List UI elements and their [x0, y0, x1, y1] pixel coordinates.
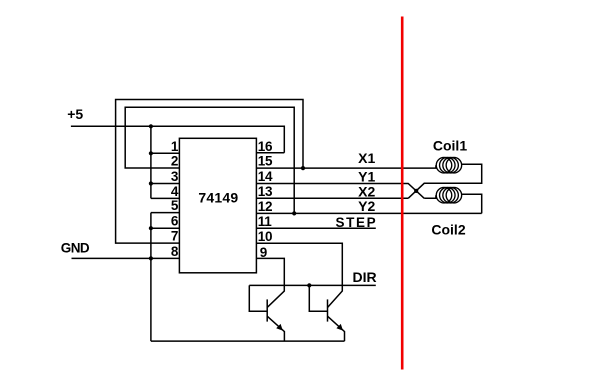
transistor Q1 emitter: [267, 316, 284, 341]
svg-text:Coil1: Coil1: [433, 138, 467, 154]
svg-text:Coil2: Coil2: [431, 221, 465, 237]
IC U1 74149 body: [179, 138, 256, 272]
wire outer loop rectangle (pin7 to X1): [116, 100, 303, 244]
transistor Q2 emitter: [328, 316, 345, 341]
wire pin 7/8 divider: [151, 242, 180, 244]
svg-text:STEP: STEP: [336, 215, 378, 230]
wire STEP pin 11: [256, 227, 375, 229]
svg-text:12: 12: [258, 199, 272, 214]
wire pin 3/4 divider: [151, 183, 180, 185]
wire pin 4/5 divider: [151, 197, 180, 199]
wire X2 pin 13: [256, 197, 408, 199]
node junction dot rail/GND: [149, 256, 153, 260]
svg-text:+5: +5: [67, 106, 83, 122]
svg-text:10: 10: [258, 229, 272, 244]
svg-text:X2: X2: [358, 183, 375, 199]
transistor Q2 emitter arrow: [336, 324, 343, 331]
svg-text:16: 16: [258, 139, 273, 154]
transistor Q1 emitter arrow: [276, 324, 283, 331]
wire GND to pin 8 bottom: [72, 257, 180, 259]
node junction dot rail/pin3-4: [149, 181, 153, 185]
svg-text:14: 14: [258, 169, 273, 184]
svg-text:7: 7: [171, 229, 179, 244]
node junction dot +5/rail: [149, 124, 153, 128]
svg-text:11: 11: [258, 214, 272, 229]
node junction dot rail/pin1-2: [149, 151, 153, 155]
inductor L2 Coil2: [436, 187, 461, 203]
node junction dot outer loop/X1: [301, 166, 305, 170]
svg-text:GND: GND: [61, 241, 90, 256]
svg-text:6: 6: [171, 214, 179, 229]
wire pin 16 stub: [256, 152, 284, 154]
svg-text:3: 3: [171, 169, 179, 184]
wire rail vertical lower segment to bottom bus: [150, 213, 152, 342]
wire inner loop rectangle (pin2/3 to Y2): [125, 107, 294, 213]
svg-text:15: 15: [258, 154, 273, 169]
node junction dot rail/pin6-7: [149, 226, 153, 230]
wire Q1 base feed: [249, 285, 267, 311]
wire coil L1 right exit to return vertical: [408, 164, 482, 198]
wire bottom emitter return bus: [151, 340, 345, 342]
svg-text:8: 8: [171, 244, 179, 259]
wire +5 rail vertical upper segment: [150, 126, 152, 198]
wire DIR base bus: [249, 284, 375, 286]
transistor Q2 base bar: [327, 299, 329, 321]
svg-text:74149: 74149: [198, 190, 238, 206]
svg-text:Y2: Y2: [358, 198, 375, 214]
svg-text:13: 13: [258, 184, 273, 199]
wire pin 2/3 divider: [151, 167, 180, 169]
transistor Q1 base bar: [266, 299, 268, 321]
wire Y2 pin 12: [256, 212, 481, 214]
red phase separator line: [401, 17, 404, 370]
node junction dot inner loop/Y2: [292, 211, 296, 215]
svg-text:1: 1: [171, 139, 179, 154]
wire X1 pin 15 to coil L1: [256, 165, 436, 168]
wire pin 9 to Q1 collector: [256, 258, 284, 307]
svg-text:5: 5: [171, 198, 179, 213]
wire +5 supply horizontal to pin 16: [71, 126, 284, 152]
wire coil L2 feed from crossover: [424, 195, 436, 198]
wire pin 6/7 divider: [151, 227, 180, 229]
wire coil L2 exit down to Y2: [462, 194, 482, 213]
wire Y1 pin 14: [256, 184, 424, 199]
svg-text:X1: X1: [358, 150, 375, 166]
svg-text:Y1: Y1: [358, 168, 375, 184]
svg-text:4: 4: [171, 184, 179, 199]
svg-text:9: 9: [260, 245, 268, 260]
wire pin 1/2 divider: [151, 152, 180, 154]
svg-text:2: 2: [171, 154, 179, 169]
inductor L1 Coil1: [436, 157, 461, 173]
node junction dot crossover: [414, 189, 418, 193]
svg-text:DIR: DIR: [352, 269, 376, 285]
node junction dot bus/Q2 base: [307, 283, 311, 287]
wire pin 5/6 divider: [151, 212, 180, 214]
wire Q2 base feed: [309, 285, 327, 311]
wire pin 10 to Q2 collector: [256, 243, 342, 307]
